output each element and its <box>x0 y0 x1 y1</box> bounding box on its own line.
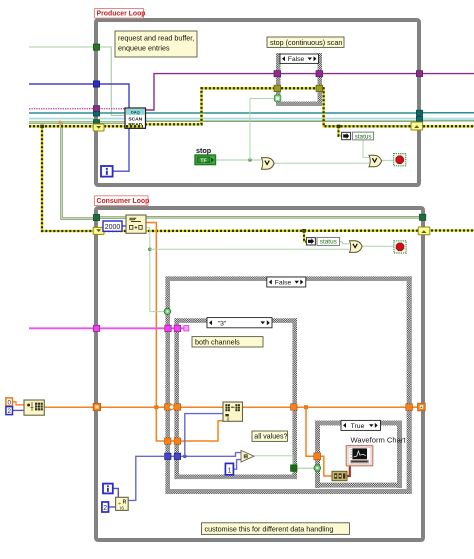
wire boolean Or1 to Or2 <box>274 162 369 164</box>
svg-text:all values?: all values? <box>254 434 287 441</box>
node index array <box>223 402 243 422</box>
wire string purple from node to case <box>145 74 275 110</box>
tunnel orange True case left <box>314 453 321 460</box>
tunnel queue consumer right <box>419 214 425 220</box>
selector question True case <box>314 465 321 472</box>
wire orange array mid to big tunnel <box>297 406 407 408</box>
shift register consumer right <box>418 227 430 235</box>
wire DAQ task teal across producer <box>29 112 96 114</box>
junction orange at dequeue branch <box>154 405 158 409</box>
terminal iteration i producer <box>101 166 113 177</box>
wire numeric 2000 to dequeue <box>122 225 126 227</box>
svg-text:status: status <box>355 133 372 140</box>
svg-text:status: status <box>320 239 337 246</box>
svg-text:TF: TF <box>200 158 207 164</box>
shift register producer left <box>93 124 104 131</box>
node equal comparison <box>241 450 254 462</box>
shift register producer right <box>411 122 423 130</box>
svg-text:Consumer Loop: Consumer Loop <box>97 198 150 205</box>
wire error consumer main run <box>104 229 419 232</box>
wire boolean status to Or2 <box>363 140 369 158</box>
svg-text:2: 2 <box>7 408 11 415</box>
while loop Consumer frame <box>96 208 423 540</box>
wire boolean branch up to case tunnel <box>250 99 275 161</box>
tunnel error case right <box>316 85 323 91</box>
unbundle status producer <box>342 132 374 140</box>
selector label False producer <box>280 54 319 63</box>
wire light cyan band right of loop <box>423 118 474 121</box>
wire i consumer to QR <box>113 488 119 498</box>
wire error right of producer loop <box>423 125 474 127</box>
wire violet branch to index array <box>185 414 223 457</box>
svg-text:enqueue entries: enqueue entries <box>118 44 170 53</box>
tunnel teal producer right upper <box>416 110 422 115</box>
wire string purple inside case <box>281 73 317 75</box>
constant 2 consumer <box>102 502 109 512</box>
svg-text:I6: I6 <box>120 505 124 510</box>
wire error inside case <box>281 87 317 89</box>
tunnel pink mid case left <box>174 325 180 331</box>
junction orange at true-case branch <box>304 405 308 409</box>
selector label False big case <box>267 277 306 287</box>
svg-text:1: 1 <box>227 467 231 474</box>
wire string dashed magenta tunnel to node <box>99 108 126 110</box>
wire boolean long to Or <box>150 248 350 250</box>
gate Or producer 1 <box>262 158 275 170</box>
junction boolean stop <box>248 158 252 162</box>
junction error left <box>40 125 44 128</box>
label Producer Loop <box>95 9 146 19</box>
wire light cyan band inside loop <box>99 118 417 121</box>
wire orange inside True case <box>321 456 332 476</box>
junction boolean consumer <box>148 248 152 252</box>
case structure producer False border <box>276 53 322 106</box>
svg-text:False: False <box>288 56 305 63</box>
pink stub end <box>184 326 189 331</box>
node to dynamic data <box>332 471 347 480</box>
wire pink inside <box>100 327 186 329</box>
tunnel boolean case left hollow <box>274 95 280 102</box>
comment stop continuous scan <box>267 37 344 47</box>
wire I32 tunnel to SCAN READ top <box>99 84 129 109</box>
case structure True border <box>315 421 402 489</box>
tunnel orange mid case left <box>174 404 180 410</box>
wire blue 2 const to build <box>12 409 24 411</box>
svg-text:DAQ: DAQ <box>131 110 140 115</box>
wire light cyan band left <box>29 118 94 121</box>
node build array <box>24 400 44 415</box>
tunnel blue mid case left <box>174 453 180 459</box>
node dequeue element <box>126 215 146 233</box>
svg-text:Producer Loop: Producer Loop <box>97 11 146 18</box>
junction violet <box>183 455 187 459</box>
wire I32 blue into loop <box>29 83 96 85</box>
junction error producer <box>337 125 341 128</box>
selector question big case <box>164 308 170 314</box>
svg-text:stop: stop <box>196 146 212 155</box>
tunnel orange consumer right <box>418 403 426 411</box>
tunnel boolean producer left <box>93 44 99 50</box>
gate Or producer 2 <box>369 155 382 167</box>
terminal waveform chart <box>346 446 373 466</box>
svg-text:False: False <box>275 280 292 287</box>
wire error consumer right of loop <box>427 229 474 231</box>
case structure "3" border <box>174 318 297 479</box>
wire 2 constant to QR <box>108 506 115 508</box>
svg-text:2: 2 <box>103 505 107 512</box>
wire string purple right of loop <box>422 73 474 75</box>
tunnel orange big case right <box>406 404 413 411</box>
tunnel orange mid case right <box>291 404 297 410</box>
wire error dashed down to consumer <box>42 126 93 231</box>
tunnel string producer right <box>416 71 422 77</box>
terminal stop boolean <box>195 155 216 165</box>
svg-text:customise this for different d: customise this for different data handli… <box>205 524 334 533</box>
tunnel green mid case right <box>291 465 297 471</box>
wire violet remainder up <box>128 456 164 500</box>
node quotient remainder <box>116 497 129 510</box>
wire orange array node to mid tunnel <box>243 406 293 408</box>
svg-text:"3": "3" <box>218 320 227 327</box>
comment both channels <box>192 337 263 347</box>
wire boolean status consumer to Or <box>340 242 350 244</box>
wire queue tunnel to dequeue <box>99 216 126 219</box>
case structure big False border <box>165 276 411 494</box>
wire orange dequeue timeout branch <box>146 223 223 442</box>
svg-text:2000: 2000 <box>105 224 121 231</box>
conditional terminal producer <box>394 154 406 166</box>
wire queue sage into loop <box>29 121 96 124</box>
terminal iteration i consumer <box>103 484 113 494</box>
comment request and read buffer <box>115 31 197 57</box>
wire orange array main run <box>101 406 224 408</box>
wire orange branch down to True case <box>306 407 314 456</box>
wire orange array big to loop tunnel <box>412 406 419 408</box>
wire orange array from build node into loop <box>44 406 94 408</box>
tunnel teal producer right lower <box>416 116 422 121</box>
terminal 2000 constant <box>103 221 122 231</box>
comment all values <box>252 431 288 441</box>
wire boolean into producer loop <box>29 46 96 48</box>
tunnel orange mid case left lower <box>174 438 180 444</box>
tunnel task teal producer left <box>93 112 99 117</box>
tunnel queue producer left <box>93 120 99 125</box>
wire boolean dequeue to Or bottom <box>146 228 165 312</box>
svg-text:0: 0 <box>227 417 230 422</box>
tunnel queue consumer left <box>93 214 99 220</box>
svg-text:stop (continuous) scan: stop (continuous) scan <box>270 38 342 47</box>
wire boolean Or2 to stop terminal <box>381 159 394 161</box>
shift register consumer left <box>93 227 104 234</box>
wire error branch to unbundle status <box>339 126 343 136</box>
unbundle status consumer <box>306 237 339 245</box>
wire dynamic data to chart <box>347 464 350 476</box>
label Consumer Loop <box>95 196 150 206</box>
wire orange 0 const to build <box>12 402 24 405</box>
tunnel orange consumer left <box>93 403 100 410</box>
wire error case down to SR right <box>323 88 412 126</box>
wire queue sage branch down to consumer <box>62 123 95 219</box>
wire string dashed magenta into loop <box>29 108 96 110</box>
wire iteration i to SCAN READ bottom <box>113 127 130 171</box>
junction circle orange between tunnels <box>169 405 174 410</box>
wire error node up into case <box>145 88 275 124</box>
comment customise this <box>202 523 350 535</box>
tunnel orange big case left lower <box>165 438 171 444</box>
svg-text:SCAN: SCAN <box>128 117 142 123</box>
tunnel I32 producer left <box>93 81 99 87</box>
constant 0 array <box>6 398 13 407</box>
wire error SR to node <box>104 125 126 127</box>
wire error branch to consumer status <box>304 231 307 242</box>
constant 1 <box>225 463 233 474</box>
wire violet constant 1 to equal <box>233 460 241 470</box>
tunnel blue big case left <box>165 453 171 459</box>
wire queue sage node to right edge <box>145 120 417 122</box>
svg-text:True: True <box>351 423 365 430</box>
tunnel orange big case left <box>165 404 171 410</box>
tunnel string producer left <box>93 106 99 112</box>
tunnel pink big case left <box>165 325 171 331</box>
junction error consumer <box>302 229 306 232</box>
svg-text:both channels: both channels <box>195 337 240 346</box>
wire string purple case to right edge <box>323 73 418 75</box>
junction queue <box>58 121 62 125</box>
wire error dashed into producer <box>29 125 94 127</box>
selector label True case <box>341 420 381 430</box>
wire violet tunnels run <box>170 455 174 457</box>
conditional terminal consumer <box>394 241 406 253</box>
svg-text:Waveform Chart: Waveform Chart <box>351 436 407 445</box>
tunnel purple case right <box>316 71 323 77</box>
wire boolean equal out to True selector <box>254 456 314 468</box>
constant 2 array <box>6 407 13 416</box>
wire boolean stop to Or <box>216 159 262 161</box>
wire queue dequeue to right tunnel <box>146 216 420 219</box>
wire error across node bottom <box>126 125 143 127</box>
wire boolean tunnel to SCAN READ <box>99 47 126 116</box>
node DAQ SCAN READ <box>125 108 146 128</box>
tunnel pink consumer left <box>93 325 99 331</box>
wire boolean Or to stop terminal consumer <box>362 245 394 247</box>
svg-text:0: 0 <box>7 399 11 406</box>
svg-text:request and read buffer,: request and read buffer, <box>118 34 194 43</box>
tunnel error case left <box>274 85 281 91</box>
wire pink string into consumer <box>29 327 94 329</box>
wire sage right of loop <box>423 120 474 122</box>
wire queue sage tunnel to node <box>99 121 126 124</box>
gate Or consumer <box>350 241 363 253</box>
selector label "3" mid case <box>207 318 272 328</box>
tunnel purple case left <box>274 71 281 77</box>
while loop Producer frame <box>96 20 419 185</box>
wire boolean mid tunnel to question <box>297 467 314 469</box>
wire teal continues right of loop <box>422 112 474 114</box>
